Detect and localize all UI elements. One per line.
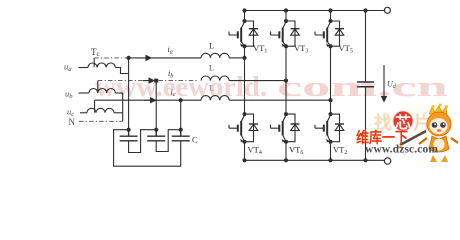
svg-text:VT1: VT1 (253, 43, 267, 55)
wire after winding c (114, 112, 123, 114)
svg-text:N: N (69, 117, 76, 127)
svg-text:ia: ia (168, 45, 173, 56)
label C (192, 135, 198, 145)
diode D1 (antiparallel of VT1) (245, 21, 259, 46)
svg-text:www.dzsc.com: www.dzsc.com (365, 144, 438, 156)
node VT1 emitter dot (243, 44, 247, 48)
wire ia line (94, 57, 128, 59)
transistor VT5 (IGBT) (315, 11, 333, 47)
winding Tc phase b (89, 89, 115, 94)
bottom bus (245, 159, 385, 161)
wire leg2 mid (285, 46, 287, 114)
diode D3 (antiparallel of VT3) (286, 21, 300, 46)
wire leg1 to bottom bus (244, 142, 246, 161)
node leg3 / ic junction (328, 98, 332, 102)
inductor L1 (201, 53, 229, 58)
node VT2 emitter dot (329, 140, 333, 144)
node cap3 dot (179, 128, 183, 132)
logo mascot (395, 104, 458, 163)
wire L3 to leg3 (229, 99, 330, 101)
svg-text:VT5: VT5 (339, 43, 353, 55)
wire leg2 to bottom bus (285, 142, 287, 161)
svg-text:VT6: VT6 (289, 145, 303, 157)
wire C1 bottom to cap2 top (129, 130, 155, 153)
wire ua to winding a (79, 67, 89, 69)
winding Tc phase a (88, 63, 115, 68)
node top bus dots (242, 8, 246, 12)
label VT2 (333, 145, 347, 157)
svg-text:L: L (209, 84, 214, 93)
label L1 (209, 41, 214, 51)
svg-text:ua: ua (64, 62, 72, 74)
terminal bottom-right (384, 158, 390, 164)
diode D2 (antiparallel of VT2) (331, 114, 345, 142)
label ic (171, 88, 176, 99)
wire ic line (95, 99, 201, 101)
transistor VT2 (IGBT) (315, 112, 333, 142)
wire leg3 mid (330, 46, 332, 114)
node leg1 / ia junction (242, 56, 246, 60)
wire leg1 mid (244, 46, 246, 114)
label N (69, 117, 76, 127)
node VT4 emitter dot (243, 140, 247, 144)
label VT5 (339, 43, 353, 55)
wire ib line (98, 80, 197, 82)
capacitor C3 plates (172, 130, 190, 141)
label VT6 (289, 145, 303, 157)
wire L1 to leg1 (229, 57, 244, 59)
wire leg3 to bottom bus (330, 142, 332, 161)
svg-text:VT3: VT3 (294, 43, 308, 55)
label VT3 (294, 43, 308, 55)
label ia (168, 45, 173, 56)
inductor L2 (201, 76, 229, 81)
transistor VT1 (IGBT) (229, 11, 247, 47)
svg-text:L: L (209, 64, 214, 73)
top bus (245, 10, 385, 12)
label ib (168, 69, 173, 80)
wire ub to winding b (79, 92, 90, 94)
source uc label (67, 107, 74, 119)
node VT3 emitter dot (284, 44, 288, 48)
node cap1 dot (127, 128, 131, 132)
wire cap bank bottom loop (114, 130, 181, 167)
inductor L3 (201, 96, 229, 101)
label Tc (91, 47, 100, 58)
source ub label (65, 89, 73, 101)
source ua label (64, 62, 72, 74)
node ib / cap2 tap dot (154, 79, 158, 83)
svg-text:ub: ub (65, 89, 73, 101)
arrow Ud (383, 65, 385, 102)
label VT4 (248, 145, 262, 157)
node leg2 / ib junction (284, 79, 288, 83)
capacitor C2 plates (147, 130, 165, 141)
diode D4 (antiparallel of VT4) (245, 114, 259, 142)
riser winding c to ic line (94, 100, 96, 112)
node ia / cap1 tap dot (127, 56, 131, 60)
capacitor C1 plates (120, 130, 138, 141)
wire vertical b/c/N junction (122, 93, 124, 121)
wire L2 to leg2 (229, 80, 286, 82)
wire N line (dashed) (79, 120, 123, 122)
transistor VT6 (IGBT) (271, 112, 289, 142)
wire after winding a jog down to node (115, 68, 128, 74)
wire uc to winding c (80, 112, 87, 114)
svg-text:C: C (192, 135, 198, 145)
svg-text:Tc: Tc (91, 47, 100, 58)
svg-text:L: L (209, 41, 214, 51)
riser winding b to ib line (97, 81, 99, 93)
svg-text:ib: ib (168, 69, 173, 80)
svg-text:VT4: VT4 (248, 145, 262, 157)
node VT5 emitter dot (329, 44, 333, 48)
label Ud (387, 80, 397, 91)
wire C2 bottom to cap3 top (156, 130, 178, 152)
svg-text:VT2: VT2 (333, 145, 347, 157)
logo: 找芯片 text (374, 111, 432, 133)
label L3 (209, 84, 214, 93)
node VT6 emitter dot (284, 140, 288, 144)
wire cap3 tap vertical (180, 100, 182, 130)
riser winding a to ia line (93, 58, 95, 67)
label L2 (209, 64, 214, 73)
wire cap2 tap vertical (155, 81, 157, 130)
logo red circle with 芯 (393, 111, 413, 131)
node cap2 dot (154, 128, 158, 132)
label VT1 (253, 43, 267, 55)
winding Tc phase c (87, 108, 114, 113)
diode D6 (antiparallel of VT6) (286, 114, 300, 142)
node bottom bus dots (242, 158, 246, 162)
terminal top-right (384, 7, 390, 13)
svg-text:芯: 芯 (395, 113, 411, 132)
node ic / cap3 tap dot (179, 98, 183, 102)
transistor VT3 (IGBT) (271, 11, 289, 47)
capacitor Cd output branch (357, 11, 374, 161)
wire after winding b (115, 92, 122, 94)
transistor VT4 (IGBT) (229, 112, 247, 142)
wire cap1 tap vertical (128, 58, 130, 130)
diode D5 (antiparallel of VT5) (331, 21, 345, 46)
